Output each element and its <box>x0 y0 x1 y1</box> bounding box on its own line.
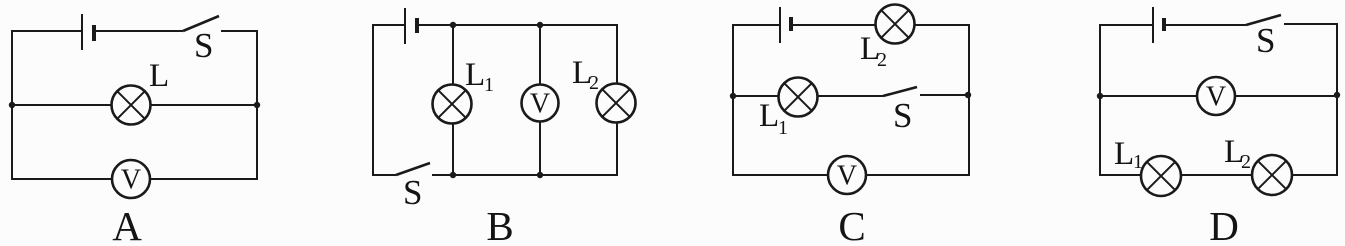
wire B left vertical <box>372 24 374 176</box>
wire D left vertical <box>1099 24 1101 176</box>
wire C middle contact to right <box>920 94 969 96</box>
wire C top battery to right corner <box>793 24 969 26</box>
svg-text:S: S <box>194 26 213 65</box>
wire B top to right corner <box>419 24 617 26</box>
svg-text:A: A <box>112 203 142 246</box>
node A-right junction <box>254 102 260 108</box>
svg-text:V: V <box>530 89 550 120</box>
wire A battery to switch <box>96 30 183 32</box>
svg-text:D: D <box>1209 203 1239 246</box>
wire B branch V vertical <box>539 25 541 175</box>
voltmeter V (B) <box>522 85 559 122</box>
svg-text:L: L <box>149 58 169 94</box>
wire A switch to top-right corner <box>221 30 257 32</box>
wire D bottom <box>1100 174 1337 176</box>
label L2 (B) <box>572 55 599 94</box>
svg-text:S: S <box>403 173 422 212</box>
svg-text:2: 2 <box>589 72 599 94</box>
wire D battery to switch <box>1166 24 1246 26</box>
svg-text:V: V <box>1206 82 1226 113</box>
switch S (B) blade <box>396 163 430 175</box>
lamp L2 (D) <box>1252 155 1292 195</box>
wire A middle branch <box>12 104 257 106</box>
svg-text:L: L <box>1114 136 1134 172</box>
wire C top-left <box>732 24 780 26</box>
label L2 (C) <box>860 31 887 71</box>
battery B <box>405 8 417 44</box>
wire C middle branch left <box>733 95 883 97</box>
node C-left junction <box>730 93 736 99</box>
wire A left vertical <box>11 30 13 180</box>
svg-text:1: 1 <box>484 74 494 96</box>
wire B right vertical <box>616 24 618 176</box>
label L2 (D) <box>1224 134 1251 173</box>
lamp L1 (C) <box>779 78 818 117</box>
switch S (A) blade <box>183 16 219 31</box>
wire C bottom <box>733 174 969 176</box>
node B top junction 2 <box>537 22 543 28</box>
svg-text:S: S <box>893 96 912 135</box>
wire D right vertical <box>1336 23 1338 176</box>
wire D top-left <box>1099 24 1153 26</box>
battery A <box>82 14 94 50</box>
label L1 (C) <box>759 98 788 139</box>
svg-text:B: B <box>486 203 513 246</box>
wire D middle branch <box>1100 95 1337 97</box>
lamp L2 (C) <box>876 5 915 44</box>
lamp L (A) <box>112 86 151 125</box>
svg-text:1: 1 <box>778 117 788 139</box>
lamp L2 (B) <box>597 84 636 123</box>
svg-text:1: 1 <box>1133 151 1143 173</box>
wire B bottom <box>432 174 617 176</box>
node B bottom junction 2 <box>537 172 543 178</box>
battery D <box>1153 7 1164 43</box>
node D-right junction <box>1334 92 1340 98</box>
wire D switch to top-right corner <box>1284 23 1337 25</box>
lamp L1 (D) <box>1141 156 1181 196</box>
battery C <box>780 7 791 43</box>
voltmeter V (D) <box>1197 77 1235 115</box>
node B top junction 1 <box>450 22 456 28</box>
wire C left vertical <box>732 24 734 176</box>
svg-text:L: L <box>465 57 485 93</box>
voltmeter V (C) <box>828 156 866 194</box>
node C-right junction <box>965 92 971 98</box>
svg-text:L: L <box>759 98 779 134</box>
svg-text:V: V <box>837 161 857 192</box>
voltmeter V (A) <box>112 160 150 198</box>
wire C right vertical <box>968 24 970 176</box>
wire B top-left <box>372 24 405 26</box>
node D-left junction <box>1097 93 1103 99</box>
svg-text:S: S <box>1256 21 1275 60</box>
node A-left junction <box>9 102 15 108</box>
svg-text:2: 2 <box>877 49 887 71</box>
label L1 (B) <box>465 57 494 96</box>
svg-text:2: 2 <box>1241 151 1251 173</box>
label L1 (D) <box>1114 136 1143 173</box>
svg-text:V: V <box>121 165 141 196</box>
wire A right vertical <box>256 30 258 180</box>
svg-text:C: C <box>838 203 865 246</box>
wire A bottom <box>12 178 257 180</box>
switch S (D) blade <box>1246 15 1281 25</box>
wire B branch L1 vertical <box>452 25 454 175</box>
wire A top-left <box>11 30 82 32</box>
wire B bottom-left stub <box>373 174 396 176</box>
node B bottom junction 1 <box>450 172 456 178</box>
lamp L1 (B) <box>433 85 472 124</box>
switch S (C) blade <box>883 87 917 96</box>
